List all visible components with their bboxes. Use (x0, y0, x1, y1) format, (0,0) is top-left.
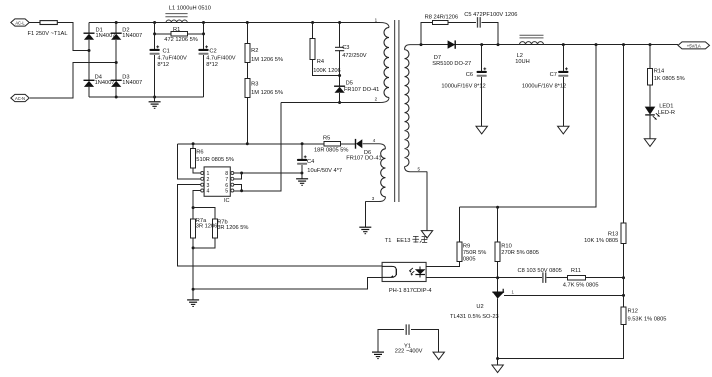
svg-text:L1 1000uH 0510: L1 1000uH 0510 (169, 6, 211, 12)
svg-text:R11: R11 (571, 268, 581, 274)
svg-text:4.7uF/400V: 4.7uF/400V (157, 55, 187, 61)
svg-text:R5: R5 (323, 135, 330, 141)
svg-text:5: 5 (225, 189, 228, 195)
svg-text:TL431 0.5% SO-23: TL431 0.5% SO-23 (450, 314, 499, 320)
svg-text:F1 250V ~T1AL: F1 250V ~T1AL (28, 31, 68, 37)
svg-text:1M 1206 5%: 1M 1206 5% (251, 57, 283, 63)
svg-text:R8 24R/1206: R8 24R/1206 (425, 14, 459, 20)
svg-text:18R 0805 5%: 18R 0805 5% (314, 147, 348, 153)
svg-text:8*12: 8*12 (157, 62, 169, 68)
svg-text:1N4007: 1N4007 (122, 80, 142, 86)
svg-text:R2: R2 (251, 48, 258, 54)
svg-text:C7: C7 (550, 72, 557, 78)
svg-text:R4: R4 (317, 59, 324, 65)
svg-text:EE13: EE13 (397, 238, 411, 244)
svg-text:R13: R13 (608, 231, 618, 237)
svg-text:R12: R12 (628, 309, 638, 315)
svg-text:4.7K 5% 0805: 4.7K 5% 0805 (563, 282, 599, 288)
svg-text:C2: C2 (209, 48, 216, 54)
svg-text:1000uF/16V 8*12: 1000uF/16V 8*12 (522, 84, 566, 90)
svg-text:1000uF/16V 8*12: 1000uF/16V 8*12 (441, 84, 485, 90)
svg-text:750R 5%: 750R 5% (463, 250, 486, 256)
svg-text:C6: C6 (466, 72, 473, 78)
svg-text:472 1206 5%: 472 1206 5% (164, 37, 198, 43)
svg-text:R14: R14 (654, 68, 664, 74)
svg-text:U2: U2 (476, 304, 483, 310)
svg-text:3R 1206: 3R 1206 (196, 224, 218, 230)
svg-text:C5 472PF100V 1206: C5 472PF100V 1206 (464, 12, 517, 18)
svg-text:AC-N: AC-N (15, 96, 25, 101)
svg-text:FR107 DO-41: FR107 DO-41 (344, 87, 379, 93)
svg-text:4.7uF/400V: 4.7uF/400V (206, 55, 236, 61)
svg-text:4: 4 (207, 189, 210, 195)
svg-text:100K 1206: 100K 1206 (313, 68, 341, 74)
svg-text:+5V/1A: +5V/1A (687, 43, 701, 48)
svg-text:10uF/50V 4*7: 10uF/50V 4*7 (307, 168, 342, 174)
svg-text:C3: C3 (342, 45, 349, 51)
svg-text:222 ~400V: 222 ~400V (395, 349, 423, 355)
svg-text:T1: T1 (385, 238, 392, 244)
svg-text:8*12: 8*12 (206, 62, 218, 68)
svg-text:1N4007: 1N4007 (95, 80, 115, 86)
svg-text:472/250V: 472/250V (342, 53, 367, 59)
svg-text:R3: R3 (251, 81, 258, 87)
svg-text:1K 0805 5%: 1K 0805 5% (654, 76, 685, 82)
svg-text:1N4007: 1N4007 (96, 33, 116, 39)
svg-text:IC: IC (224, 198, 230, 204)
svg-text:R6: R6 (196, 150, 203, 156)
svg-text:9.53K 1% 0805: 9.53K 1% 0805 (628, 316, 667, 322)
svg-text:FR107 DO-41: FR107 DO-41 (346, 156, 381, 162)
svg-text:3R 1206 5%: 3R 1206 5% (217, 225, 248, 231)
svg-text:R9: R9 (463, 244, 470, 250)
svg-text:C4: C4 (307, 159, 314, 165)
svg-text:270R 5% 0805: 270R 5% 0805 (501, 250, 539, 256)
svg-text:AC-L: AC-L (15, 21, 25, 26)
svg-text:1N4007: 1N4007 (122, 33, 142, 39)
svg-text:0805: 0805 (463, 256, 476, 262)
svg-text:510R 0805 5%: 510R 0805 5% (196, 157, 234, 163)
svg-text:SR5100 DO-27: SR5100 DO-27 (432, 61, 471, 67)
svg-text:C8 103 50V 0805: C8 103 50V 0805 (518, 268, 562, 274)
svg-text:10K 1% 0805: 10K 1% 0805 (584, 238, 618, 244)
svg-text:PH-1 817CDIP-4: PH-1 817CDIP-4 (389, 288, 432, 294)
svg-text:C1: C1 (163, 48, 170, 54)
svg-text:10UH: 10UH (515, 59, 530, 65)
svg-text:LED-R: LED-R (658, 110, 675, 116)
svg-text:R1: R1 (173, 27, 180, 33)
svg-text:1M 1206 5%: 1M 1206 5% (251, 90, 283, 96)
svg-text:R10: R10 (501, 244, 511, 250)
svg-text:D5: D5 (346, 81, 353, 87)
svg-text:LED1: LED1 (659, 103, 673, 109)
